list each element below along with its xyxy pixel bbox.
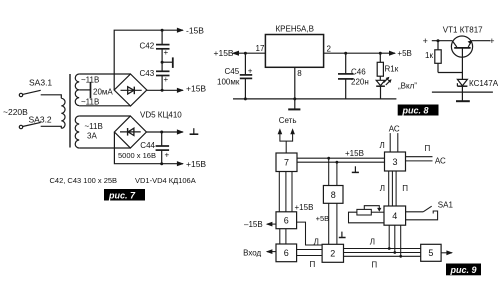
label fig9 box: [446, 264, 481, 276]
bridge rectifier VD1-VD4 diamond: [114, 74, 147, 106]
svg-text:–15В: –15В: [244, 220, 263, 229]
wire +15V rail: [147, 89, 183, 91]
LED emission arrows: [384, 78, 389, 83]
svg-text:VD1-VD4 КД106А: VD1-VD4 КД106А: [135, 176, 196, 185]
wire down to block 8: [328, 158, 330, 185]
wire VD5 plus to common arrow: [146, 131, 183, 133]
arrow -15V out: [267, 223, 276, 225]
svg-text:VD5 КЦ410: VD5 КЦ410: [140, 111, 182, 120]
wire secondary1 top tap to bridge: [79, 73, 130, 75]
diode inside bridge 1: [121, 89, 142, 91]
potentiometer left of block 4: [357, 209, 371, 215]
svg-text:рис. 9: рис. 9: [450, 265, 477, 275]
svg-text:100мк: 100мк: [217, 78, 240, 87]
svg-text:17: 17: [256, 44, 265, 53]
switch SA3.1: [19, 93, 22, 96]
wire ground rail fig8: [233, 98, 396, 100]
transformer T primary winding: [61, 98, 65, 128]
svg-text:„Вкл”: „Вкл”: [398, 81, 417, 90]
svg-text:Л: Л: [370, 237, 375, 246]
svg-text:Сеть: Сеть: [279, 116, 297, 125]
svg-text:П: П: [371, 261, 377, 270]
wire emitter side: [472, 40, 490, 42]
wire 7 to 6 (three lines): [278, 172, 280, 212]
svg-text:+5В: +5В: [316, 214, 330, 223]
wires 2 to 5 (three): [344, 248, 421, 250]
svg-text:C46: C46: [351, 67, 366, 76]
switch SA3.2: [19, 125, 22, 128]
wire 6u right to 2: [297, 222, 323, 245]
diode inside bridge VD5: [120, 131, 141, 133]
svg-text:8: 8: [297, 69, 302, 78]
block 8: [323, 186, 343, 204]
capacitor C46: [345, 53, 347, 74]
node junction +15V: [161, 89, 164, 92]
node junction resistor top: [437, 39, 440, 42]
op-amp U1 regulator box KREN5: [265, 35, 323, 68]
wire mains fork arrows: [285, 141, 287, 153]
svg-text:+15В: +15В: [214, 48, 234, 58]
block 6 upper: [276, 212, 297, 229]
ground symbol after arrow: [193, 128, 195, 134]
svg-text:П: П: [310, 260, 316, 269]
svg-text:C42, C43 100 x 25В: C42, C43 100 x 25В: [50, 176, 118, 185]
capacitor C45: [244, 53, 246, 75]
svg-text:4: 4: [392, 211, 397, 221]
arrow -15V: [177, 28, 184, 33]
wires AC up from 3: [389, 133, 391, 152]
block 2: [322, 244, 343, 262]
label fig7 box: [104, 189, 145, 201]
node junction R1 top: [379, 52, 382, 55]
svg-text:3: 3: [393, 157, 398, 167]
svg-text:SA1: SA1: [438, 201, 454, 210]
node junction common: [161, 61, 164, 64]
block 7: [276, 153, 297, 172]
wire 6u to 6l (two lines): [279, 229, 281, 244]
wire output rail: [324, 52, 395, 54]
block 6 lower: [276, 244, 297, 262]
svg-text:Л: Л: [380, 184, 385, 193]
capacitor C43: [156, 70, 170, 72]
label common above 2 (drawn): [339, 232, 346, 238]
svg-text:SA3.1: SA3.1: [29, 78, 52, 88]
label common bus (drawn): [352, 166, 359, 172]
svg-text:C44: C44: [140, 141, 155, 150]
ground symbol VT1: [461, 92, 463, 101]
svg-text:+: +: [164, 75, 169, 84]
svg-text:П: П: [425, 144, 431, 153]
transistor VT1 collector lead: [452, 41, 457, 47]
node junction C45 bottom: [244, 97, 247, 100]
svg-text:~11В: ~11В: [85, 122, 103, 131]
resistor R1: [379, 53, 381, 62]
svg-text:R1к: R1к: [385, 65, 399, 74]
svg-text:7: 7: [284, 158, 289, 168]
node junction C46: [344, 52, 347, 55]
svg-text:2: 2: [327, 45, 332, 54]
arrow out of 5: [441, 252, 452, 254]
svg-text:+: +: [423, 36, 428, 46]
wire secondary1 bottom tap to bridge: [79, 105, 130, 107]
zener diode VD KS147A: [461, 73, 463, 80]
wire bottom rail VT1: [432, 91, 493, 93]
capacitor C42: [161, 30, 163, 44]
svg-text:~220В: ~220В: [3, 107, 28, 117]
ground symbol fig8: [288, 108, 300, 110]
svg-text:~11В: ~11В: [81, 97, 99, 106]
svg-text:6: 6: [284, 248, 289, 258]
svg-text:+: +: [165, 151, 170, 160]
node junction C42 top: [161, 29, 164, 32]
wire secondary2 top tap to bridge: [79, 115, 130, 117]
transformer core: [69, 74, 71, 148]
svg-text:КС147А: КС147А: [469, 79, 499, 88]
svg-text:C43: C43: [140, 69, 155, 78]
capacitor C44: [161, 132, 163, 146]
svg-text:8: 8: [331, 190, 336, 200]
svg-text:1к: 1к: [425, 51, 433, 60]
svg-text:КРЕН5А,В: КРЕН5А,В: [276, 25, 314, 34]
transistor VT1 emitter lead with arrow: [468, 41, 472, 47]
wire base to resistor: [438, 72, 462, 74]
arrow +15V: [177, 88, 184, 93]
node junction C45: [244, 52, 247, 55]
svg-text:220н: 220н: [351, 78, 369, 87]
node junction to 8: [327, 157, 330, 160]
wires 4 down to buses: [388, 225, 390, 248]
svg-text:6: 6: [284, 216, 289, 226]
svg-text:3А: 3А: [87, 132, 97, 141]
svg-text:+5В: +5В: [397, 49, 411, 58]
block 5: [421, 244, 441, 261]
svg-text:5: 5: [428, 248, 433, 258]
node junction C44 top: [160, 131, 163, 134]
node junction C44 bottom: [160, 162, 163, 165]
svg-text:VT1 КТ817: VT1 КТ817: [443, 26, 483, 35]
svg-text:Вход: Вход: [243, 249, 261, 258]
bridge rectifier VD5 diamond: [114, 116, 146, 148]
svg-text:+15В: +15В: [186, 84, 206, 94]
svg-text:+15В: +15В: [186, 159, 206, 169]
wire input rail: [238, 52, 265, 54]
wire secondary2 bottom tap to bridge: [79, 147, 130, 149]
transformer secondary winding 1: [75, 74, 79, 106]
transistor VT1 base lead: [461, 48, 463, 73]
block 4: [384, 206, 406, 225]
wire -15V rail: [114, 30, 183, 90]
svg-text:АС: АС: [389, 125, 400, 134]
wire 8 to 2: [328, 203, 330, 244]
arrow common out: [177, 129, 184, 134]
arrow +15V lower: [177, 161, 184, 166]
svg-text:2: 2: [330, 249, 335, 259]
wire collector side: [432, 40, 453, 42]
svg-text:рис. 8: рис. 8: [402, 106, 429, 116]
wire VD5 minus to bottom rail: [114, 132, 183, 164]
wires 3 to right AC: [406, 156, 433, 158]
transistor VT1 circle: [451, 36, 472, 57]
svg-text:+15В: +15В: [295, 203, 314, 212]
transistor VT1 base bar: [454, 47, 470, 49]
svg-text:C42: C42: [140, 41, 155, 50]
arrow +5V: [389, 51, 396, 56]
arrow from +15V input (pointing left): [232, 51, 239, 56]
svg-text:SA3.2: SA3.2: [29, 115, 52, 125]
svg-text:+: +: [248, 66, 253, 75]
block 3: [385, 152, 406, 171]
wire +15V pair 7 to 3: [297, 157, 385, 159]
common terminal bar: [162, 61, 172, 63]
svg-text:П: П: [402, 184, 408, 193]
svg-text:-15В: -15В: [186, 26, 204, 36]
switch SA1: [406, 211, 424, 213]
wire secondary1 center tap: [79, 89, 90, 91]
LED HL1: [376, 80, 385, 85]
label fig8 box: [398, 105, 439, 116]
transformer secondary winding 2: [75, 116, 79, 148]
wire: [41, 126, 62, 128]
svg-text:+: +: [164, 48, 169, 57]
arrow Vhod in: [267, 251, 276, 253]
svg-text:рис. 7: рис. 7: [108, 190, 136, 200]
svg-text:+15В: +15В: [345, 149, 364, 158]
svg-text:20мА: 20мА: [93, 88, 113, 97]
svg-text:5000 x 16В: 5000 x 16В: [118, 151, 156, 160]
svg-text:+: +: [489, 36, 494, 46]
svg-text:Л: Л: [314, 237, 319, 246]
node junction pin8/rail: [293, 97, 296, 100]
wires 6l to 2: [297, 249, 323, 251]
pin 8 lead: [294, 67, 296, 109]
svg-text:АС: АС: [435, 156, 446, 165]
resistor 1k: [437, 41, 439, 50]
svg-text:Л: Л: [380, 141, 385, 150]
svg-text:~11В: ~11В: [81, 76, 99, 85]
wires 3 to 4 (three): [388, 171, 390, 206]
node common terminal bar (center tap): [90, 82, 92, 99]
wire: [41, 95, 62, 99]
svg-text:C45: C45: [225, 67, 240, 76]
